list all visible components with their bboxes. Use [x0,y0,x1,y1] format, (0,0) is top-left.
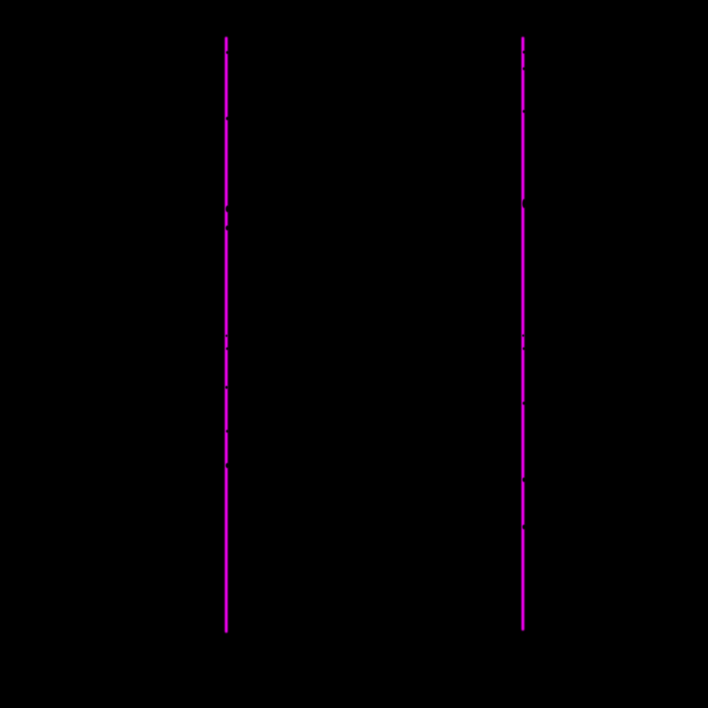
junction J7 on BUS2 [523,51,526,54]
pin P5 on BUS2 [522,478,526,483]
junction J5 on BUS1 [225,386,228,389]
junction J9 on BUS2 [523,110,526,113]
junction J11 on BUS2 [523,347,526,350]
wire BUS2 (right vertical net, highlighted magenta) [522,38,525,629]
junction J2 on BUS1 [226,117,229,120]
pin P1 on BUS1 [226,206,230,213]
pin P3 on BUS1 [226,463,230,468]
pin P6 on BUS2 [522,525,526,530]
junction J6 on BUS1 [226,430,229,433]
junction J1 on BUS1 [226,51,229,54]
junction J10 on BUS2 [522,334,524,336]
junction J12 on BUS2 [523,402,526,405]
junction J4 on BUS1 [226,347,229,350]
pin P4 on BUS2 [522,199,526,208]
junction J8 on BUS2 [523,67,526,70]
wire BUS1 (left vertical net, highlighted magenta) [225,38,228,631]
pin P2 on BUS1 [226,226,230,231]
junction J3 on BUS1 [225,335,227,337]
